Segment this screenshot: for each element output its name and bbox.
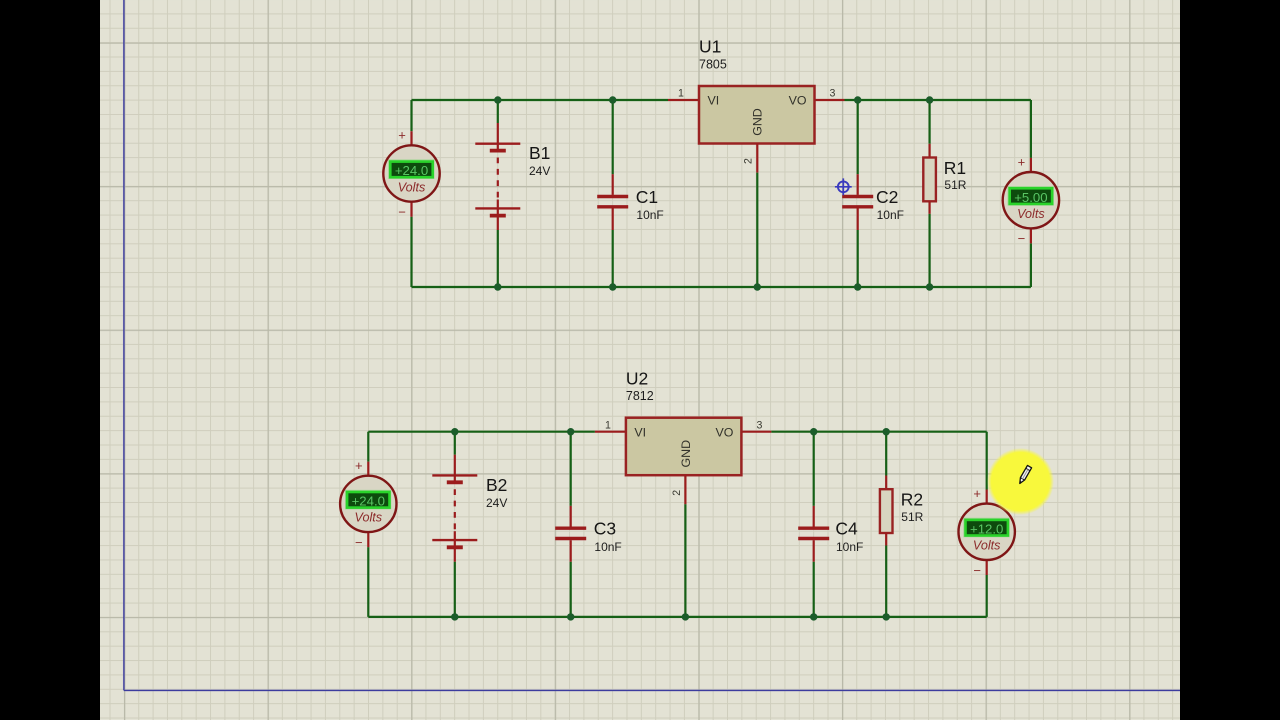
- battery B2 cell 1 short plate: [447, 480, 463, 484]
- svg-text:C1: C1: [636, 187, 658, 207]
- svg-text:VI: VI: [708, 94, 720, 108]
- junction: B1 top: [494, 96, 501, 103]
- svg-text:10nF: 10nF: [594, 540, 621, 554]
- capacitor C2 bottom plate: [842, 205, 873, 208]
- junction: R2 top: [883, 428, 890, 435]
- svg-text:3: 3: [830, 88, 836, 100]
- junction: C1 bottom: [609, 283, 616, 290]
- svg-text:B2: B2: [486, 475, 507, 495]
- wire: R1 branch lower: [928, 214, 930, 287]
- letterbox bar right: [1180, 0, 1280, 720]
- capacitor C1 bottom pin: [612, 209, 614, 231]
- wire: circuit 1 right branch lower: [1030, 243, 1032, 287]
- regulator U1 (7805) body: [699, 86, 815, 144]
- resistor R2 body: [880, 489, 893, 533]
- svg-text:+24.0: +24.0: [352, 494, 385, 509]
- svg-text:U1: U1: [699, 37, 721, 57]
- svg-text:+: +: [398, 128, 406, 143]
- svg-text:51R: 51R: [901, 510, 923, 524]
- letterbox bar left: [0, 0, 100, 720]
- wire: circuit 2 right branch upper: [986, 432, 988, 490]
- voltmeter V3 (input) body: [340, 476, 396, 532]
- regulator U1 pin 3 wire: [815, 99, 845, 101]
- junction: C2 top: [854, 96, 861, 103]
- battery B2 cell 1 long plate: [432, 474, 477, 476]
- junction: R1 top: [926, 96, 933, 103]
- svg-text:Volts: Volts: [398, 180, 426, 194]
- regulator U1 pin 1 wire: [668, 99, 699, 101]
- svg-text:VO: VO: [789, 94, 807, 108]
- svg-text:−: −: [973, 563, 981, 578]
- voltmeter V2 (output) LCD display: [1008, 187, 1053, 205]
- svg-text:−: −: [355, 535, 363, 550]
- junction: U1 GND bottom: [754, 283, 761, 290]
- battery B1 cell 1 long plate: [475, 142, 520, 144]
- regulator U2 pin 2 (GND) wire: [684, 475, 686, 504]
- junction: C4 top: [810, 428, 817, 435]
- battery B2 cell 2 short plate: [447, 545, 463, 549]
- voltmeter V1 (input) body: [383, 145, 439, 201]
- wire: circuit 1 bottom rail: [412, 286, 1031, 288]
- svg-text:51R: 51R: [944, 178, 966, 192]
- wire: circuit 2 top rail left segment: [368, 431, 595, 433]
- junction: C4 bottom: [810, 613, 817, 620]
- junction: B2 bottom: [451, 613, 458, 620]
- regulator U2 (7812) body: [626, 418, 742, 476]
- svg-text:R2: R2: [901, 490, 923, 510]
- svg-text:+: +: [355, 458, 363, 473]
- svg-text:Volts: Volts: [973, 539, 1001, 553]
- battery B1 cell 1 short plate: [490, 149, 506, 153]
- svg-text:B1: B1: [529, 143, 550, 163]
- capacitor C1 top plate: [597, 195, 628, 198]
- svg-text:C4: C4: [835, 519, 858, 539]
- wire: circuit 2 left branch lower: [367, 547, 369, 617]
- svg-text:+12.0: +12.0: [970, 522, 1003, 537]
- wire: circuit 2 top rail right segment: [771, 431, 986, 433]
- svg-text:U2: U2: [626, 368, 648, 388]
- svg-text:R1: R1: [944, 158, 966, 178]
- resistor R2 bottom pin: [885, 533, 887, 546]
- svg-text:24V: 24V: [529, 164, 550, 178]
- battery B1 cell 2 short plate: [490, 214, 506, 218]
- resistor R1 top pin: [928, 144, 930, 158]
- svg-text:3: 3: [756, 419, 762, 431]
- capacitor C2 top pin: [857, 174, 859, 195]
- wire: circuit 1 top rail left segment: [412, 99, 669, 101]
- svg-text:1: 1: [605, 419, 611, 431]
- svg-text:10nF: 10nF: [836, 540, 863, 554]
- junction: C3 top: [567, 428, 574, 435]
- voltmeter V1 (input) pin stubs: [410, 131, 412, 217]
- svg-text:7805: 7805: [699, 57, 727, 71]
- wire: R1 branch upper: [928, 100, 930, 144]
- battery B2 dashed link: [454, 489, 456, 529]
- capacitor C1 top pin: [612, 174, 614, 195]
- voltmeter V2 (output) pin stubs: [1030, 158, 1032, 244]
- wire: R2 branch upper: [885, 432, 887, 476]
- svg-text:10nF: 10nF: [636, 208, 663, 222]
- svg-text:−: −: [1018, 231, 1026, 246]
- wire: B2 branch lower: [454, 562, 456, 617]
- wire: circuit 2 bottom rail: [368, 616, 986, 618]
- wire: R2 branch lower: [885, 546, 887, 617]
- node marker: blue origin crosshair at C2: [835, 178, 852, 195]
- capacitor C2 top plate: [842, 195, 873, 198]
- junction: B1 bottom: [494, 283, 501, 290]
- svg-text:+: +: [1018, 154, 1026, 169]
- battery B2 top pin: [454, 455, 456, 483]
- capacitor C1 bottom plate: [597, 205, 628, 208]
- regulator U2 pin 3 wire: [741, 431, 771, 433]
- svg-text:10nF: 10nF: [877, 208, 904, 222]
- svg-text:−: −: [398, 205, 406, 220]
- svg-text:+: +: [973, 486, 981, 501]
- wire: C2 branch upper: [857, 100, 859, 174]
- sheet border (blue) horizontal edge: [124, 689, 1180, 691]
- cursor: yellow highlight circle: [987, 448, 1054, 515]
- junction: C1 top: [609, 96, 616, 103]
- wire: U1 ground pin to bottom rail: [756, 173, 758, 287]
- voltmeter V4 (output) pin stubs: [986, 490, 988, 576]
- regulator U1 pin 2 (GND) wire: [756, 144, 758, 173]
- wire: C1 branch lower: [612, 230, 614, 287]
- battery B1 top pin: [497, 123, 499, 151]
- capacitor C4 bottom pin: [813, 540, 815, 562]
- capacitor C3 bottom pin: [570, 540, 572, 562]
- capacitor C4 top pin: [813, 506, 815, 527]
- wire: circuit 2 right branch lower: [986, 575, 988, 617]
- cursor: pencil icon: [1018, 465, 1032, 484]
- svg-text:+24.0: +24.0: [395, 163, 428, 178]
- svg-text:Volts: Volts: [1017, 207, 1045, 221]
- junction: R2 bottom: [883, 613, 890, 620]
- battery B2 cell 2 long plate: [432, 539, 477, 541]
- voltmeter V2 (output) body: [1003, 172, 1059, 228]
- junction: C2 bottom: [854, 283, 861, 290]
- svg-text:GND: GND: [751, 108, 765, 136]
- wire: C1 branch upper: [612, 100, 614, 174]
- svg-text:+5.00: +5.00: [1014, 190, 1047, 205]
- svg-text:Volts: Volts: [355, 511, 383, 525]
- resistor R1 bottom pin: [928, 201, 930, 214]
- resistor R2 top pin: [885, 476, 887, 490]
- capacitor C2 bottom pin: [857, 209, 859, 231]
- svg-text:7812: 7812: [626, 389, 654, 403]
- wire: circuit 1 top rail right segment: [845, 99, 1031, 101]
- wire: B1 branch lower: [497, 230, 499, 287]
- regulator U2 pin 1 wire: [595, 431, 626, 433]
- voltmeter V4 (output) LCD display: [964, 518, 1009, 536]
- wire: C3 branch lower: [570, 562, 572, 617]
- battery B1 cell 2 long plate: [475, 207, 520, 209]
- wire: C3 branch upper: [570, 432, 572, 506]
- wire: circuit 1 left branch upper: [410, 100, 412, 131]
- capacitor C4 bottom plate: [798, 537, 829, 540]
- wire: circuit 2 left branch upper: [367, 432, 369, 462]
- svg-text:C3: C3: [594, 519, 616, 539]
- voltmeter V4 (output) body: [959, 504, 1015, 560]
- battery B1 dashed link: [497, 158, 499, 198]
- svg-text:VO: VO: [715, 425, 733, 439]
- junction: U2 GND bottom: [682, 613, 689, 620]
- svg-text:24V: 24V: [486, 496, 507, 510]
- voltmeter V3 (input) LCD display: [346, 490, 391, 508]
- wire: C4 branch upper: [813, 432, 815, 506]
- svg-text:VI: VI: [634, 425, 646, 439]
- wire: circuit 1 right branch upper: [1030, 100, 1032, 158]
- capacitor C3 top pin: [570, 506, 572, 527]
- wire: B1 branch upper: [497, 100, 499, 123]
- battery B2 bottom pin: [454, 531, 456, 562]
- capacitor C4 top plate: [798, 527, 829, 530]
- capacitor C3 top plate: [555, 527, 586, 530]
- wire: circuit 1 left branch lower: [410, 217, 412, 287]
- voltmeter V1 (input) LCD display: [389, 160, 434, 178]
- battery B1 bottom pin: [497, 200, 499, 231]
- junction: B2 top: [451, 428, 458, 435]
- svg-text:2: 2: [671, 490, 683, 496]
- wire: B2 branch upper: [454, 432, 456, 455]
- svg-text:C2: C2: [876, 187, 898, 207]
- svg-text:2: 2: [743, 158, 755, 164]
- wire: U2 ground pin to bottom rail: [684, 504, 686, 617]
- junction: C3 bottom: [567, 613, 574, 620]
- wire: C2 branch lower: [857, 230, 859, 287]
- sheet border (blue) vertical edge: [123, 0, 125, 690]
- voltmeter V3 (input) pin stubs: [367, 462, 369, 547]
- capacitor C3 bottom plate: [555, 537, 586, 540]
- svg-text:GND: GND: [679, 440, 693, 468]
- svg-text:1: 1: [678, 88, 684, 100]
- wire: C4 branch lower: [813, 562, 815, 617]
- resistor R1 body: [923, 158, 936, 202]
- junction: R1 bottom: [926, 283, 933, 290]
